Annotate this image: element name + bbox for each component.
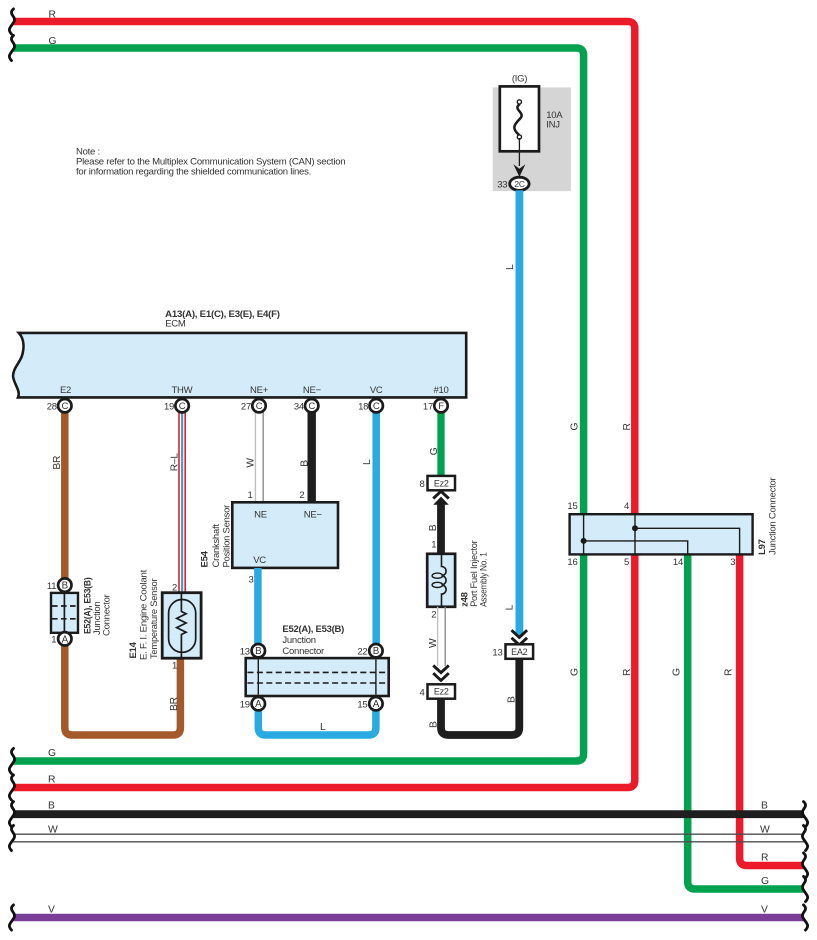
svg-text:2: 2 xyxy=(431,610,436,621)
svg-text:11: 11 xyxy=(47,581,56,592)
E14 temperature sensor box xyxy=(162,593,201,659)
svg-text:G: G xyxy=(49,36,57,47)
fuse block gray background xyxy=(493,87,571,191)
svg-text:Assembly No. 1: Assembly No. 1 xyxy=(478,552,489,607)
wire G top bus: from left frayed end, right then down through L97 to bottom G bus xyxy=(13,48,584,761)
svg-text:Connector: Connector xyxy=(282,646,324,657)
E14 internal stadium outline xyxy=(169,600,196,653)
svg-text:Junction: Junction xyxy=(282,635,315,646)
svg-text:G: G xyxy=(761,876,769,887)
svg-text:R: R xyxy=(48,774,55,785)
svg-text:R: R xyxy=(622,423,633,430)
svg-text:19: 19 xyxy=(164,402,174,413)
frayed end B bus right xyxy=(802,802,807,827)
down arrows into EA2 xyxy=(512,630,528,645)
fuse 10A INJ: body xyxy=(500,86,539,151)
wire G from ECM #10 down to Ez2 connector 8 xyxy=(437,405,444,476)
L97 internal thin lines: green pass-through with branch to pin 14 xyxy=(584,514,688,554)
frayed end V bus left xyxy=(9,905,14,930)
terminal circle 15 A xyxy=(369,697,382,710)
terminal circle B pin 11 xyxy=(58,578,71,591)
frayed end G bus right xyxy=(802,876,807,901)
wire L from 2C down to EA2 connector xyxy=(516,190,524,636)
svg-text:G: G xyxy=(429,447,440,455)
svg-text:F: F xyxy=(438,401,444,412)
svg-text:22: 22 xyxy=(357,646,367,657)
svg-text:Position Sensor: Position Sensor xyxy=(221,505,232,568)
svg-text:V: V xyxy=(761,904,768,915)
svg-text:ECM: ECM xyxy=(165,319,186,330)
svg-text:A: A xyxy=(255,699,262,710)
svg-text:Ez2: Ez2 xyxy=(434,478,449,488)
svg-text:1: 1 xyxy=(248,490,253,501)
svg-text:E52(A), E53(B): E52(A), E53(B) xyxy=(282,624,344,635)
svg-text:L: L xyxy=(320,722,326,733)
connector Ez2 pin 8 box xyxy=(428,476,456,490)
ECM box with torn left edge xyxy=(13,333,466,398)
wire L from ECM VC down to junction connector 22B xyxy=(372,405,380,646)
frayed end G top left xyxy=(9,35,14,60)
svg-text:C: C xyxy=(256,401,263,412)
down arrows into Ez2 4 xyxy=(433,665,449,680)
wire W from ECM NE+ down to E54 pin 1 xyxy=(254,405,256,502)
junction connector L97 box xyxy=(570,514,753,554)
note text block xyxy=(76,147,345,178)
svg-text:A: A xyxy=(373,699,380,710)
svg-text:Junction Connector: Junction Connector xyxy=(768,478,779,555)
svg-text:2: 2 xyxy=(172,583,177,594)
frayed end V bus right xyxy=(802,905,807,930)
wire R right branch from L97 pin 3 down to right edge xyxy=(740,555,804,866)
svg-text:Temperature Sensor: Temperature Sensor xyxy=(149,579,160,659)
svg-text:E2: E2 xyxy=(60,385,71,396)
svg-text:VC: VC xyxy=(370,385,383,396)
terminal circle A pin 1 xyxy=(58,632,71,645)
connector Ez2 pin 4 box xyxy=(428,684,456,698)
svg-text:L: L xyxy=(505,264,516,270)
svg-text:16: 16 xyxy=(567,557,577,568)
svg-text:8: 8 xyxy=(419,479,424,490)
connector EA2 pin 13 box xyxy=(506,644,534,659)
svg-text:R: R xyxy=(761,852,768,863)
svg-text:33: 33 xyxy=(497,179,507,190)
svg-text:34: 34 xyxy=(294,402,304,413)
svg-text:E54: E54 xyxy=(199,550,210,567)
wire G right branch from L97 pin 14 down to right edge xyxy=(688,555,804,889)
frayed end R top left xyxy=(9,9,14,34)
svg-text:L: L xyxy=(505,604,516,610)
svg-text:17: 17 xyxy=(423,402,433,413)
wire L loop from 19A around to 15A xyxy=(258,708,376,735)
svg-text:NE: NE xyxy=(254,510,267,521)
z48 internal coil symbol xyxy=(442,554,447,607)
svg-text:W: W xyxy=(428,638,439,648)
terminal circle 19 A xyxy=(252,697,265,710)
svg-text:INJ: INJ xyxy=(546,120,560,131)
svg-text:R: R xyxy=(49,10,56,21)
frayed end R bus right xyxy=(802,853,807,878)
svg-text:BR: BR xyxy=(52,456,63,470)
svg-text:VC: VC xyxy=(253,555,266,566)
svg-text:W: W xyxy=(760,824,770,835)
svg-text:B: B xyxy=(428,721,439,728)
svg-text:R: R xyxy=(622,669,633,676)
svg-text:4: 4 xyxy=(419,687,424,698)
svg-text:C: C xyxy=(308,401,315,412)
L97 internal thin lines: red pass-through with branch to pin 3 xyxy=(635,514,740,554)
svg-text:27: 27 xyxy=(241,402,251,413)
svg-text:G: G xyxy=(569,423,580,431)
wire B from ECM NE- down to E54 pin 2 xyxy=(308,405,316,502)
frayed end W bus left xyxy=(9,825,14,850)
svg-text:18: 18 xyxy=(358,402,368,413)
svg-text:B: B xyxy=(761,801,768,812)
wire L from E54 VC pin 3 down to junction connector 13B xyxy=(254,568,262,646)
svg-text:2C: 2C xyxy=(514,179,524,189)
svg-text:5: 5 xyxy=(624,557,629,568)
svg-text:G: G xyxy=(569,668,580,676)
svg-text:#10: #10 xyxy=(433,385,448,396)
frayed end B bus left xyxy=(9,802,14,827)
svg-text:B: B xyxy=(48,801,55,812)
svg-text:14: 14 xyxy=(673,557,683,568)
svg-text:G: G xyxy=(48,748,56,759)
svg-text:1: 1 xyxy=(172,661,177,672)
svg-text:B: B xyxy=(300,460,311,467)
svg-text:28: 28 xyxy=(47,402,57,413)
svg-text:NE−: NE− xyxy=(304,510,323,521)
svg-text:B: B xyxy=(428,524,439,531)
svg-text:2: 2 xyxy=(299,490,304,501)
svg-text:R–L: R–L xyxy=(170,453,181,472)
svg-text:19: 19 xyxy=(240,699,250,710)
svg-text:NE−: NE− xyxy=(303,385,322,396)
svg-text:G: G xyxy=(672,668,683,676)
wire W from z48 pin 2 down to Ez2 4 xyxy=(437,607,439,666)
frayed end G bus left xyxy=(9,748,14,773)
svg-text:R: R xyxy=(724,669,735,676)
svg-text:C: C xyxy=(179,401,186,412)
svg-text:4: 4 xyxy=(624,501,629,512)
svg-text:C: C xyxy=(61,401,68,412)
E14 internal resistor zigzag xyxy=(177,593,186,659)
svg-text:L97: L97 xyxy=(757,539,768,555)
svg-text:Connector: Connector xyxy=(102,594,113,636)
svg-text:B: B xyxy=(373,646,380,657)
fuse element S-curve with end circles xyxy=(514,104,521,135)
svg-text:EA2: EA2 xyxy=(511,647,528,657)
svg-text:THW: THW xyxy=(171,385,192,396)
wire V bottom bus full width xyxy=(13,914,804,922)
svg-text:13: 13 xyxy=(240,646,250,657)
frayed end W bus right xyxy=(802,825,807,850)
svg-text:W: W xyxy=(48,824,58,835)
wire R-L striped from ECM THW down to E14 pin 2 xyxy=(178,405,186,593)
ECM terminal circles C C C C C F xyxy=(58,399,448,412)
wire W bottom bus full width (white wire drawn as two thin gray lines) xyxy=(13,834,804,842)
svg-text:B: B xyxy=(62,581,69,592)
frayed end R bus left xyxy=(9,775,14,800)
svg-text:Ez2: Ez2 xyxy=(434,687,449,697)
wire B bottom bus full width xyxy=(13,810,804,818)
svg-text:13: 13 xyxy=(492,647,502,658)
svg-text:15: 15 xyxy=(357,699,367,710)
E54 crankshaft position sensor box xyxy=(232,502,338,568)
svg-text:1: 1 xyxy=(431,540,436,551)
wire R top bus: from left frayed end, right then down through L97 to bottom R bus xyxy=(13,22,635,788)
terminal circle 22 B xyxy=(369,644,382,657)
injector z48 box xyxy=(427,554,455,607)
wire B from Ez2 8 down to z48 pin 1 with up arrow xyxy=(433,491,449,498)
junction connector E52(A),E53(B) wide box xyxy=(246,658,389,696)
svg-text:E. F. I. Engine Coolant: E. F. I. Engine Coolant xyxy=(138,569,149,660)
connector 2C oval xyxy=(510,177,529,190)
svg-text:BR: BR xyxy=(169,697,180,711)
terminal circle 13 B xyxy=(252,644,265,657)
svg-text:C: C xyxy=(373,401,380,412)
svg-text:3: 3 xyxy=(249,574,254,585)
svg-text:for information regarding the: for information regarding the shielded c… xyxy=(76,167,311,178)
wire BR from ECM E2 down, around to E14 pin 1 xyxy=(65,405,181,735)
svg-text:15: 15 xyxy=(567,501,577,512)
junction connector E52(A),E53(B) left: box with grid xyxy=(51,593,78,633)
svg-text:W: W xyxy=(246,458,257,468)
svg-text:L: L xyxy=(362,459,373,465)
wire from fuse to connector 2C with solid arrow xyxy=(518,138,520,166)
svg-text:B: B xyxy=(255,646,262,657)
svg-text:3: 3 xyxy=(730,557,735,568)
svg-text:V: V xyxy=(48,904,55,915)
svg-text:(IG): (IG) xyxy=(512,74,527,85)
wire B from Ez2 4 down, right, up to EA2 13 xyxy=(441,659,519,735)
svg-text:1: 1 xyxy=(51,635,56,646)
svg-text:B: B xyxy=(506,696,517,703)
svg-text:A: A xyxy=(62,634,69,645)
svg-text:NE+: NE+ xyxy=(250,385,269,396)
